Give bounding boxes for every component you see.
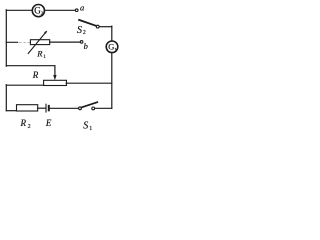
svg-text:R: R [32, 70, 39, 80]
svg-text:S: S [83, 121, 88, 132]
node b terminal [80, 41, 83, 44]
wire R1 branch feed (faint) [6, 41, 17, 43]
rheostat R1 [28, 31, 49, 54]
svg-text:R: R [20, 118, 27, 128]
wire G2 to node a [45, 9, 75, 11]
wire R2 to battery [38, 107, 46, 109]
wire battery to S1 [50, 107, 79, 109]
switch S1 lever [81, 102, 97, 107]
svg-text:2: 2 [28, 124, 31, 130]
resistor R2 [17, 105, 38, 111]
wiper arrow [53, 75, 56, 80]
wire right rail upper [111, 26, 113, 40]
wire top-left to G2 [6, 9, 32, 11]
switch S2 lever [79, 20, 96, 26]
wire left rail [5, 10, 7, 66]
node a terminal [75, 9, 78, 12]
switch S1 right contact [92, 107, 95, 110]
label S2 [77, 25, 86, 36]
wire S1 to bottom-right corner [95, 107, 112, 109]
svg-text:2: 2 [41, 11, 44, 17]
battery E positive plate [45, 104, 47, 112]
svg-text:1: 1 [43, 54, 46, 60]
battery E negative plate [48, 106, 50, 110]
label R2 [20, 118, 31, 130]
potentiometer R [44, 80, 67, 85]
svg-text:a: a [80, 3, 84, 13]
wire bottom-left segment [6, 110, 16, 112]
svg-text:b: b [84, 41, 88, 51]
wire wiper feed horizontal [6, 65, 55, 67]
wire left lower rail [5, 85, 7, 111]
galvanometer G2 [32, 5, 44, 18]
svg-text:1: 1 [114, 47, 117, 53]
label R1 [36, 49, 46, 61]
svg-text:E: E [45, 118, 52, 128]
label S1 [83, 121, 92, 132]
wire S2 pivot to right rail corner [99, 26, 112, 28]
galvanometer G1 [106, 41, 118, 53]
wire wiper feed vertical [54, 66, 56, 76]
switch S1 left contact [79, 107, 82, 110]
wire R left terminal [6, 84, 43, 86]
wire right rail lower [111, 53, 113, 108]
switch S2 pivot contact [96, 25, 99, 28]
wire R right terminal to rail [66, 82, 112, 84]
wire R1 to node b [50, 41, 80, 43]
svg-text:1: 1 [89, 126, 92, 132]
svg-text:2: 2 [83, 30, 86, 36]
svg-text:S: S [77, 25, 82, 36]
